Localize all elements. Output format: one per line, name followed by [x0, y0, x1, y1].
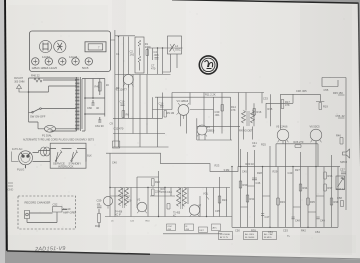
IF bus 126	[197, 125, 240, 127]
page right edge	[358, 3, 360, 260]
capacitor C12	[114, 127, 124, 131]
left backing strip	[0, 0, 5, 263]
FM antenna terminal	[14, 77, 28, 92]
svg-text:GND: GND	[8, 188, 14, 192]
tube layout box	[30, 31, 111, 72]
resistor R34	[299, 184, 308, 191]
svg-text:R38: R38	[334, 200, 339, 204]
svg-text:C33: C33	[263, 97, 268, 101]
svg-text:ALL CAP: ALL CAP	[264, 233, 273, 236]
svg-text:T5 455: T5 455	[173, 213, 181, 215]
svg-text:50C5: 50C5	[82, 66, 89, 70]
resistor R15 label	[268, 107, 273, 111]
detector bus 103	[266, 102, 293, 104]
tube V4 converter	[197, 125, 215, 137]
svg-text:12AT7: 12AT7	[42, 55, 50, 59]
svg-text:KC IF: KC IF	[115, 215, 121, 217]
svg-text:C52: C52	[53, 202, 58, 206]
svg-text:R46: R46	[336, 134, 341, 138]
B minus rail	[110, 30, 120, 148]
svg-text:C61 30: C61 30	[95, 124, 104, 128]
ratio det transformer T3	[239, 111, 255, 133]
svg-text:AVC: AVC	[213, 227, 218, 230]
svg-text:R30: R30	[243, 183, 248, 187]
resistor R36 stack	[324, 172, 333, 191]
svg-text:TO AF: TO AF	[63, 207, 71, 211]
resistor R38	[330, 198, 339, 205]
capacitor C30	[215, 110, 221, 117]
svg-text:R26 270: R26 270	[294, 140, 304, 144]
svg-text:V6 50C5: V6 50C5	[310, 125, 321, 129]
svg-text:ALL RES: ALL RES	[245, 233, 254, 236]
resistor R41 filter	[95, 82, 110, 91]
resistor R9	[164, 111, 174, 118]
resistor R16	[253, 109, 262, 116]
resistor R17	[281, 100, 290, 109]
svg-text:12BE6: 12BE6	[207, 128, 215, 132]
volume control VC	[203, 192, 209, 200]
svg-text:C10: C10	[120, 100, 125, 104]
resistor R23 label	[215, 164, 230, 173]
IF vertical drops	[124, 75, 271, 148]
svg-text:RECORD CHANGER: RECORD CHANGER	[25, 200, 51, 204]
svg-text:INTERLOCK: INTERLOCK	[58, 165, 74, 169]
IF bus 92	[172, 92, 264, 94]
svg-text:R39: R39	[251, 229, 256, 233]
svg-text:SW ON-OFF: SW ON-OFF	[30, 115, 46, 119]
svg-text:C54: C54	[315, 230, 320, 234]
svg-text:2AD151-V9: 2AD151-V9	[34, 246, 66, 253]
svg-text:C47: C47	[265, 215, 270, 219]
capacitor C47	[261, 214, 270, 220]
IF can outline	[85, 42, 106, 52]
resistor R26	[294, 140, 304, 148]
capacitor C10	[120, 100, 125, 106]
wire osc drops	[148, 48, 183, 74]
IF bus 97	[155, 96, 231, 98]
pencil inscription 2AD151-V9	[34, 246, 66, 253]
tube V5 det	[276, 125, 289, 144]
svg-text:VOLTAGE: VOLTAGE	[220, 233, 231, 236]
AM bus 233	[163, 233, 222, 235]
svg-text:V4: V4	[207, 125, 211, 129]
AM label row box 3	[199, 227, 208, 233]
audio bottom labels	[235, 229, 320, 235]
interlock switch SW-B	[69, 150, 82, 166]
svg-text:R28: R28	[257, 171, 262, 175]
svg-text:R19: R19	[323, 105, 328, 109]
resistor R31	[246, 195, 255, 202]
AM misc labels	[111, 199, 220, 223]
wire switch feed	[29, 109, 77, 113]
FM section bottom bus	[115, 74, 171, 76]
page left edge	[5, 0, 7, 251]
svg-text:1K: 1K	[106, 83, 109, 87]
FM top bus	[115, 35, 135, 37]
node dots power	[28, 91, 94, 115]
socket S4	[72, 58, 79, 65]
B plus branch bus	[276, 144, 318, 167]
svg-text:40: 40	[96, 106, 99, 110]
capacitor C4	[154, 50, 160, 59]
wire phono leads	[27, 212, 57, 223]
svg-text:C56 .02: C56 .02	[336, 114, 346, 118]
svg-text:V5 12AV6: V5 12AV6	[276, 125, 288, 129]
svg-text:220K: 220K	[155, 190, 161, 194]
svg-text:SPKR: SPKR	[340, 160, 347, 164]
resistor R21 label	[161, 187, 167, 194]
svg-text:KC: KC	[173, 216, 177, 218]
socket S2	[45, 58, 52, 65]
detector bus 94	[281, 93, 321, 95]
svg-text:BLK: BLK	[87, 156, 92, 158]
svg-text:R35: R35	[310, 200, 315, 204]
AM vertical drops	[115, 167, 232, 228]
audio rail top labels	[242, 168, 300, 175]
bottom note box 1	[219, 232, 233, 240]
FM tuner vertical rails	[119, 37, 129, 148]
svg-text:R27: R27	[295, 168, 300, 172]
capacitor C2	[130, 50, 135, 57]
svg-text:T4 456: T4 456	[115, 212, 123, 214]
junction dots main	[109, 166, 316, 228]
right rail capacitor C58	[337, 196, 344, 207]
svg-text:C1: C1	[116, 52, 120, 56]
power transformer T1 winding	[75, 77, 82, 131]
svg-text:R20 1K: R20 1K	[246, 162, 255, 166]
svg-text:.005: .005	[154, 53, 160, 57]
svg-text:R11 2.2K: R11 2.2K	[205, 93, 216, 97]
svg-text:C53: C53	[283, 229, 288, 233]
capacitor C46	[252, 178, 261, 185]
capacitor C48	[292, 217, 301, 223]
label C38	[296, 89, 307, 93]
svg-text:C9: C9	[110, 122, 114, 126]
wire interlock feeds	[50, 149, 86, 162]
interlock wire tag	[87, 156, 92, 158]
capacitor C60 electrolytic	[87, 100, 99, 110]
resistor R19	[319, 103, 328, 110]
svg-text:R45 150: R45 150	[333, 91, 343, 95]
AM bus 187	[110, 187, 230, 189]
page bottom edge	[7, 251, 150, 254]
right rail resistor R45	[333, 91, 345, 95]
tube V2 top view	[54, 40, 66, 52]
svg-text:R43: R43	[95, 224, 100, 228]
tube V1 top view	[39, 40, 51, 52]
svg-text:PLUG: PLUG	[17, 168, 24, 172]
pilot lamp P1	[42, 125, 56, 137]
speaker SP1	[340, 149, 350, 164]
svg-text:AT 117V: AT 117V	[220, 236, 229, 239]
audio verticals	[241, 167, 339, 228]
tube pin drops	[181, 115, 206, 140]
IF bus 147	[113, 146, 169, 148]
svg-text:47K: 47K	[231, 108, 236, 112]
wire lamp leads	[29, 122, 77, 129]
audio inter-stage stubs	[241, 186, 325, 212]
svg-text:300 OHM: 300 OHM	[14, 80, 24, 83]
svg-text:.05: .05	[340, 176, 344, 180]
right rail capacitor C57	[340, 168, 346, 181]
staircase bus left	[106, 153, 340, 171]
svg-text:C35: C35	[215, 209, 220, 213]
resistor R6	[122, 111, 129, 118]
capacitor C49	[317, 217, 326, 223]
svg-text:OSC: OSC	[168, 226, 173, 228]
brand logo medallion	[199, 56, 217, 74]
svg-text:R47 12: R47 12	[337, 187, 346, 191]
svg-text:C44: C44	[167, 190, 172, 194]
AM rail left	[109, 153, 111, 216]
resistor R33	[277, 198, 286, 205]
socket S3	[59, 58, 66, 65]
svg-text:.001: .001	[215, 113, 221, 117]
right top label C55	[324, 88, 329, 92]
resistor R43 aux	[95, 209, 101, 228]
capacitor C40	[112, 161, 117, 165]
svg-text:470K: 470K	[161, 190, 167, 194]
T5 value labels	[173, 213, 181, 218]
right rail label R47	[337, 187, 346, 191]
detector to audio connector wires	[239, 126, 332, 166]
capacitor C15	[159, 102, 164, 108]
svg-text:C12 470: C12 470	[114, 127, 124, 131]
rectifier section verticals	[85, 79, 105, 132]
resistor R1	[145, 42, 151, 56]
IF transformer T5	[177, 188, 187, 210]
svg-text:.02: .02	[252, 144, 256, 148]
AM grid bus 177	[137, 176, 220, 178]
resistor R40 line cord	[31, 74, 42, 83]
tube V7 am det	[189, 204, 201, 217]
svg-text:R41: R41	[95, 85, 100, 89]
svg-text:1A2: 1A2	[130, 53, 135, 57]
svg-text:C38 .005: C38 .005	[296, 89, 307, 93]
tube V8 am if	[137, 198, 147, 214]
label C33	[263, 97, 268, 101]
AC plug PL1	[17, 151, 33, 172]
svg-text:C49: C49	[320, 219, 325, 223]
wire phono out	[52, 209, 67, 211]
IF bus 109	[153, 109, 214, 111]
tube V1 oscillator	[116, 75, 134, 92]
AM bus 196	[110, 195, 175, 197]
resistor R30	[239, 181, 248, 188]
svg-text:47K: 47K	[285, 103, 290, 107]
svg-text:C60: C60	[87, 106, 92, 110]
svg-text:3.3M: 3.3M	[224, 168, 230, 172]
AM label row box 2	[185, 224, 194, 231]
page top edge	[172, 0, 359, 3]
resistor R14	[221, 105, 236, 113]
resistor R35	[307, 198, 316, 205]
svg-text:R36: R36	[328, 174, 333, 178]
capacitor C52 coupling	[53, 202, 63, 212]
detector bus 77	[322, 78, 346, 211]
tube V6 output	[310, 125, 322, 144]
socket S5	[85, 58, 92, 65]
capacitor C7	[151, 64, 156, 71]
svg-text:R15: R15	[268, 107, 273, 111]
capacitor C61 electrolytic	[95, 117, 104, 128]
resistor R24	[218, 196, 227, 203]
svg-text:C57: C57	[340, 168, 345, 172]
svg-text:.01: .01	[97, 202, 101, 206]
capacitor C44	[167, 190, 172, 194]
svg-text:R16: R16	[257, 110, 262, 114]
svg-text:IN MFD: IN MFD	[264, 237, 272, 239]
AM label row box 4	[212, 224, 221, 231]
interlock switch SW-A	[53, 150, 65, 166]
svg-text:R24: R24	[222, 198, 227, 202]
svg-text:R29: R29	[273, 170, 278, 174]
wire B+ top	[82, 79, 105, 132]
bottom note box 2	[244, 232, 258, 240]
svg-text:R33: R33	[280, 200, 285, 204]
svg-text:R42: R42	[301, 229, 306, 233]
svg-text:R40 22: R40 22	[31, 74, 40, 78]
osc can T2A	[168, 36, 182, 54]
svg-text:117V AC: 117V AC	[12, 147, 22, 151]
svg-text:V3 12BA6: V3 12BA6	[177, 99, 189, 103]
resistor R20	[246, 162, 255, 166]
svg-text:470: 470	[151, 67, 156, 71]
tube V3 if amp	[177, 99, 190, 119]
svg-text:ALTERNATE TYPE LINE CORD PLUGS: ALTERNATE TYPE LINE CORD PLUGS USED ON E…	[23, 139, 95, 142]
svg-text:RATIO DET: RATIO DET	[239, 129, 253, 133]
svg-text:R23: R23	[215, 164, 220, 168]
svg-text:C43: C43	[288, 171, 293, 175]
AM bus 216	[105, 216, 232, 218]
svg-text:V2: V2	[137, 198, 141, 202]
right rail capacitor C56	[336, 114, 346, 118]
phono dashed enclosure	[18, 196, 76, 229]
svg-text:R22: R22	[155, 180, 160, 184]
svg-text:R31: R31	[250, 197, 255, 201]
phono jack J2	[25, 211, 30, 219]
line cord tag 117V	[12, 147, 23, 162]
svg-text:C40: C40	[112, 161, 117, 165]
resistor R22 stack	[152, 179, 162, 196]
svg-text:C46: C46	[256, 181, 261, 185]
bottom note box 3	[263, 232, 277, 240]
oscillator coil L5	[167, 204, 170, 210]
right rail resistor R46	[336, 134, 343, 145]
switch SW1 on-off	[30, 108, 46, 119]
svg-text:12BA6 12BE6 12AV6: 12BA6 12BE6 12AV6	[32, 66, 58, 70]
svg-text:R9 1M: R9 1M	[167, 111, 175, 115]
detector verticals	[266, 78, 338, 130]
output transformer T6	[336, 176, 345, 190]
svg-text:R34: R34	[303, 186, 308, 190]
svg-text:C55: C55	[324, 88, 329, 92]
svg-text:VOL: VOL	[203, 192, 209, 196]
IF transformer T4	[115, 188, 129, 217]
node dots fm	[118, 36, 163, 49]
tube V2 am conv	[103, 196, 112, 208]
svg-text:C45: C45	[242, 170, 247, 174]
svg-text:C15: C15	[159, 102, 164, 106]
svg-text:C48: C48	[295, 219, 300, 223]
IF bus 118	[113, 117, 163, 119]
svg-text:C50: C50	[235, 229, 240, 233]
margin tick marks	[8, 183, 14, 192]
svg-text:P1 DIAL: P1 DIAL	[42, 133, 53, 137]
wire mains	[29, 80, 77, 92]
svg-text:C58: C58	[337, 196, 342, 200]
interlock box	[50, 143, 86, 168]
svg-text:V7: V7	[198, 204, 202, 208]
AM label row box 1	[167, 224, 176, 231]
svg-text:AMP GRID: AMP GRID	[63, 210, 76, 214]
svg-text:V1 12AT7: V1 12AT7	[116, 88, 128, 92]
svg-text:R25: R25	[261, 143, 266, 147]
svg-text:100K: 100K	[145, 45, 151, 49]
tuner can T2	[135, 37, 144, 73]
line cord twist L	[40, 147, 50, 156]
capacitor C41	[252, 141, 266, 148]
svg-text:R37: R37	[328, 186, 333, 190]
svg-text:IN OHMS: IN OHMS	[245, 237, 255, 239]
svg-text:C20: C20	[127, 199, 132, 203]
audio bottom bus	[232, 226, 338, 228]
label B plus	[205, 93, 216, 97]
capacitor C59 aux	[97, 199, 102, 208]
socket S1	[32, 58, 39, 65]
wire plug to line	[33, 151, 51, 162]
wire primary top	[29, 78, 77, 131]
IF bus 133	[113, 134, 232, 141]
